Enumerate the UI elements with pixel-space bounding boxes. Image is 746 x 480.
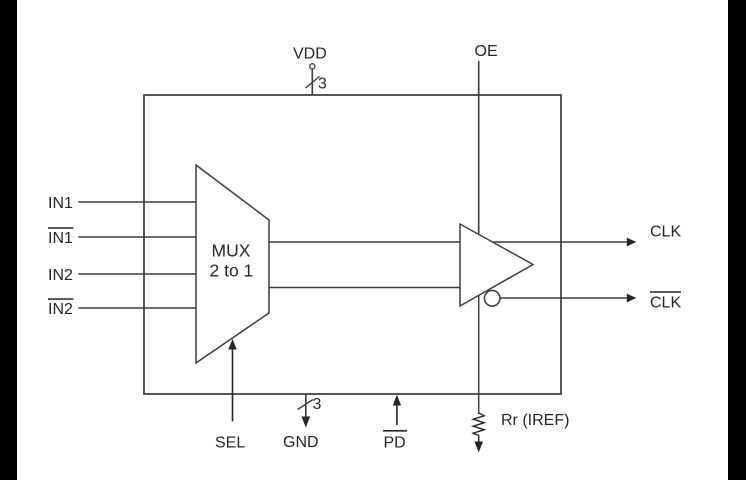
wire PDbar arrow	[396, 404, 398, 425]
wire IN2	[78, 273, 196, 275]
device outline	[144, 95, 561, 394]
arrowhead CLKbar	[627, 294, 637, 303]
svg-text:CLK: CLK	[650, 295, 681, 312]
wire SEL arrow	[232, 348, 234, 421]
right black sidebar	[728, 0, 746, 480]
wire VDD to outline	[311, 69, 313, 95]
arrowhead SEL	[228, 339, 237, 350]
wire CLKbar output	[500, 297, 628, 299]
svg-text:MUX: MUX	[212, 241, 251, 261]
wire GND	[305, 394, 307, 418]
arrowhead IREF	[474, 442, 483, 453]
arrowhead CLK	[627, 238, 637, 247]
wire IN1bar	[78, 236, 196, 238]
CLKbar overline	[650, 291, 681, 293]
arrowhead PDbar	[393, 395, 401, 406]
VDD terminal circle	[310, 64, 315, 69]
wire IN2bar	[78, 307, 196, 309]
output buffer triangle	[460, 224, 533, 306]
wire mux lower output	[269, 287, 460, 289]
inverting output bubble	[484, 291, 500, 307]
svg-text:IN2: IN2	[48, 301, 73, 318]
svg-text:VDD: VDD	[293, 46, 327, 63]
wire OE to buffer	[478, 61, 480, 234]
svg-text:OE: OE	[475, 43, 498, 60]
svg-text:3: 3	[313, 396, 322, 413]
PDbar overline	[383, 430, 407, 432]
wire CLK output	[493, 241, 629, 243]
wire IREF from buffer	[478, 295, 480, 414]
VDD bus slash	[306, 77, 320, 89]
svg-text:IN1: IN1	[48, 230, 73, 247]
left black sidebar	[0, 0, 17, 480]
svg-text:2 to 1: 2 to 1	[210, 261, 254, 281]
IN2bar overline	[48, 298, 74, 300]
multiplexer MUX 2 to 1	[196, 165, 269, 363]
IN1bar overline	[48, 227, 74, 229]
svg-text:3: 3	[318, 76, 327, 93]
GND bus slash	[298, 400, 314, 410]
svg-text:PD: PD	[384, 435, 406, 452]
svg-text:IN1: IN1	[48, 195, 73, 212]
svg-text:IN2: IN2	[48, 267, 73, 284]
svg-text:Rr (IREF): Rr (IREF)	[501, 412, 569, 429]
wire mux upper output	[269, 241, 460, 243]
svg-text:SEL: SEL	[215, 435, 245, 452]
svg-text:CLK: CLK	[650, 224, 681, 241]
arrowhead GND	[302, 417, 311, 428]
resistor Rr zigzag	[473, 413, 484, 436]
wire IN1	[78, 201, 196, 203]
svg-text:GND: GND	[283, 434, 319, 451]
wire below resistor	[478, 436, 480, 443]
